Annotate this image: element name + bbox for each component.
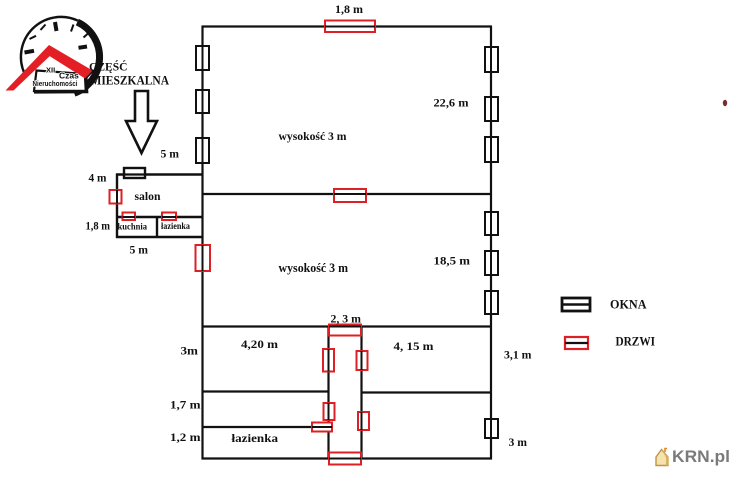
door D11 corridor left lower — [324, 403, 335, 420]
logo tick 10h — [30, 36, 37, 39]
svg-text:KRN.pl: KRN.pl — [672, 447, 730, 466]
svg-text:CZĘŚĆ: CZĘŚĆ — [89, 60, 128, 74]
svg-text:5 m: 5 m — [130, 245, 149, 257]
wall mid level1 — [203, 193, 492, 195]
svg-text:salon: salon — [135, 189, 161, 203]
wall annex top — [116, 173, 203, 175]
krn house icon — [656, 449, 669, 466]
svg-text:XII: XII — [46, 66, 55, 75]
svg-text:1,2 m: 1,2 m — [170, 432, 201, 444]
svg-text:łazienka: łazienka — [232, 433, 279, 445]
svg-text:1,8 m: 1,8 m — [86, 221, 111, 233]
door D10 corridor right upper — [357, 351, 368, 370]
wall main bottom — [202, 457, 493, 459]
logo house body — [34, 71, 86, 92]
svg-text:Nieruchomości: Nieruchomości — [33, 81, 78, 88]
window W7 right wall — [485, 212, 498, 235]
svg-text:3 m: 3 m — [509, 437, 528, 449]
wall level3 left segment — [203, 390, 330, 392]
svg-text:3m: 3m — [181, 346, 199, 358]
svg-text:18,5 m: 18,5 m — [434, 256, 471, 268]
logo tick 12h — [55, 22, 57, 31]
svg-text:2, 3 m: 2, 3 m — [331, 314, 362, 326]
window W2 left wall — [196, 90, 209, 113]
svg-text:1,7 m: 1,7 m — [170, 400, 201, 412]
door D4 corridor bottom — [329, 453, 361, 465]
logo clock ring thin arc — [21, 17, 78, 74]
wall corridor right — [360, 326, 362, 459]
logo roof left slope — [6, 45, 54, 91]
svg-text:łazienka: łazienka — [161, 222, 190, 232]
svg-text:wysokość 3 m: wysokość 3 m — [279, 129, 347, 143]
logo roof right slope — [46, 45, 93, 79]
door D13 horizontal wall4 — [312, 423, 332, 432]
svg-text:22,6 m: 22,6 m — [434, 98, 469, 110]
wall main left — [201, 26, 203, 460]
svg-text:MIESZKALNA: MIESZKALNA — [91, 74, 170, 88]
window W5 right wall — [485, 97, 498, 121]
wall annex mid — [116, 216, 203, 218]
door D5 left main wall — [196, 245, 211, 271]
window W6 right wall — [485, 137, 498, 162]
wall corridor left — [327, 326, 329, 459]
door D12 corridor right lower — [358, 412, 369, 430]
wall annex bottom — [116, 236, 203, 239]
svg-text:Czas: Czas — [59, 71, 79, 81]
window W10 right wall — [485, 419, 498, 438]
wall annex divider — [156, 217, 158, 237]
svg-text:1,8 m: 1,8 m — [335, 4, 363, 16]
window W4 right wall — [485, 47, 498, 72]
wall main right — [490, 26, 492, 460]
svg-text:DRZWI: DRZWI — [616, 335, 656, 349]
window W11 annex top — [124, 168, 145, 178]
svg-text:3,1 m: 3,1 m — [504, 350, 532, 362]
door D3 corridor top — [329, 325, 361, 336]
svg-text:OKNA: OKNA — [610, 298, 647, 312]
logo house thick right-bottom edge — [34, 74, 87, 92]
door D8 lazienka top — [162, 213, 176, 221]
svg-text:wysokość 3 m: wysokość 3 m — [279, 261, 349, 275]
wall level3 right segment — [361, 391, 491, 393]
svg-text:4,20 m: 4,20 m — [241, 339, 278, 351]
logo clock thick right arc — [74, 22, 99, 93]
svg-text:4, 15 m: 4, 15 m — [394, 341, 434, 353]
logo tick 1h — [71, 25, 74, 32]
door D2 mid wall — [334, 189, 366, 202]
svg-text:5 m: 5 m — [161, 149, 180, 161]
legend door symbol — [565, 337, 588, 349]
door D1 top wall — [325, 21, 375, 33]
red dot right edge — [723, 100, 727, 106]
wall annex left — [116, 174, 118, 239]
svg-text:kuchnia: kuchnia — [118, 223, 148, 233]
svg-text:4 m: 4 m — [89, 173, 107, 185]
window W3 left wall — [196, 138, 209, 163]
window W1 left wall — [196, 46, 209, 70]
wall level4 left — [203, 426, 330, 428]
window W8 right wall — [485, 251, 498, 275]
logo tick 11h — [41, 25, 46, 31]
legend window symbol — [562, 298, 590, 311]
window W9 right wall — [485, 291, 498, 314]
arrow down hollow — [126, 91, 157, 153]
logo roof right black edge — [86, 70, 94, 79]
logo tick 2h — [84, 34, 89, 38]
wall mid level2 — [203, 325, 492, 327]
wall main top — [202, 25, 493, 27]
door D7 kuchnia top — [123, 213, 136, 221]
door D9 corridor left upper — [323, 349, 334, 372]
door D6 annex left wall — [110, 190, 122, 204]
logo tick 9h — [25, 51, 35, 53]
logo tick 3h — [79, 47, 88, 48]
